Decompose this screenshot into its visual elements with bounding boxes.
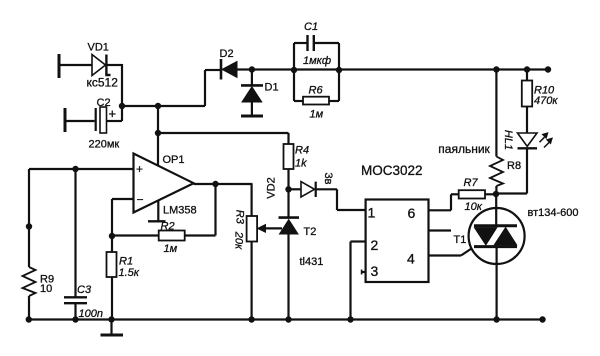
svg-text:T2: T2: [304, 226, 317, 238]
svg-text:1: 1: [368, 204, 376, 220]
svg-text:кс512: кс512: [87, 75, 119, 89]
svg-text:+: +: [109, 106, 117, 121]
svg-text:+: +: [136, 162, 143, 176]
svg-text:10: 10: [40, 283, 52, 295]
svg-text:HL1: HL1: [502, 130, 514, 150]
svg-text:VD1: VD1: [88, 42, 109, 54]
svg-text:tl431: tl431: [300, 256, 324, 268]
svg-text:1.5к: 1.5к: [119, 267, 140, 279]
svg-text:D2: D2: [220, 48, 234, 60]
svg-text:C1: C1: [304, 21, 318, 33]
svg-text:4: 4: [407, 251, 415, 267]
svg-text:470к: 470к: [534, 95, 558, 107]
svg-text:C3: C3: [77, 284, 92, 296]
svg-text:вт134-600: вт134-600: [528, 207, 579, 219]
svg-text:R3: R3: [234, 210, 246, 225]
svg-text:1мкф: 1мкф: [303, 55, 331, 67]
svg-text:OP1: OP1: [163, 154, 185, 166]
svg-text:−: −: [137, 193, 144, 207]
svg-text:D1: D1: [265, 82, 279, 94]
svg-text:20к: 20к: [233, 231, 245, 250]
svg-text:R1: R1: [119, 256, 133, 268]
svg-text:3в: 3в: [322, 173, 334, 185]
svg-text:R4: R4: [295, 145, 309, 157]
svg-text:1м: 1м: [310, 109, 324, 121]
svg-text:MOC3022: MOC3022: [361, 163, 423, 178]
svg-text:10к: 10к: [465, 201, 483, 213]
svg-text:220мк: 220мк: [89, 139, 120, 151]
svg-text:6: 6: [408, 205, 416, 221]
svg-text:R7: R7: [464, 177, 479, 189]
svg-text:R8: R8: [507, 160, 521, 172]
svg-text:R6: R6: [309, 85, 324, 97]
svg-text:3: 3: [371, 263, 379, 279]
svg-text:100n: 100n: [79, 308, 103, 320]
svg-text:LM358: LM358: [163, 205, 197, 217]
svg-text:T1: T1: [454, 234, 467, 246]
svg-text:2: 2: [371, 237, 379, 253]
svg-text:1м: 1м: [164, 243, 178, 255]
svg-text:1k: 1k: [295, 158, 307, 170]
svg-text:R2: R2: [161, 221, 175, 233]
svg-text:паяльник: паяльник: [438, 142, 490, 156]
svg-text:VD2: VD2: [266, 177, 278, 198]
